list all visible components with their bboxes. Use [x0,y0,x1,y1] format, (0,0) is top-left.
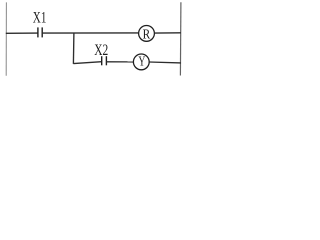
wire rung2 middle segment [106,61,133,63]
branch wire vertical [72,33,75,64]
svg-text:R: R [143,28,151,43]
contact X2 [102,56,107,65]
wire rung2 right segment [149,61,181,64]
right power rail [179,2,182,75]
coil Y circle [133,54,149,70]
wire rung2 left segment [73,62,101,64]
wire rung1 left segment [6,32,38,34]
svg-text:X2: X2 [94,42,108,59]
contact X1 [38,27,42,37]
wire rung1 right segment [154,32,181,34]
coil R circle [139,26,155,42]
wire rung1 middle segment [42,32,138,34]
left power rail [5,2,7,75]
svg-text:Y: Y [138,54,145,69]
svg-text:X1: X1 [33,10,47,27]
